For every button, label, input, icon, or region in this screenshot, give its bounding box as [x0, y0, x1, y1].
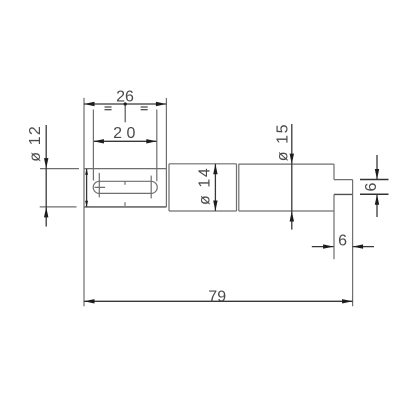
svg-text:20: 20 — [113, 125, 140, 142]
arrowhead 26 right — [156, 102, 167, 106]
arrowhead dia12 inner bottom — [85, 201, 88, 207]
arrowhead 20 right — [146, 139, 157, 143]
shaft section S1 (keyway section) outline — [84, 98, 166, 207]
keyway right center cross — [150, 176, 152, 199]
dim 6 right dimension line segments — [376, 155, 378, 217]
equals mark right under 26 — [141, 107, 148, 111]
arrowhead 79 right (points right) — [342, 299, 353, 303]
svg-text:26: 26 — [116, 89, 134, 106]
arrowhead dia12 bottom (points up) — [44, 207, 48, 218]
arrowhead dia12 top (points down) — [44, 158, 48, 169]
arrowhead dia12 inner top — [85, 169, 88, 175]
center dashes on S1 centerline — [124, 181, 126, 206]
svg-text:ø 14: ø 14 — [197, 167, 214, 205]
arrowhead 26 left — [84, 102, 95, 106]
arrowhead 6 right bottom (points up) — [375, 194, 379, 205]
groove double lines between S2 and S3 — [237, 164, 239, 211]
svg-text:ø 15: ø 15 — [275, 123, 292, 161]
arrowhead 6 bottom right (points left) — [353, 244, 364, 248]
dia12 dimension line outside segments — [45, 125, 47, 227]
arrowhead 79 left (points left) — [84, 299, 95, 303]
svg-text:6: 6 — [363, 182, 380, 191]
dim 6 bottom extension lines — [334, 194, 353, 306]
dimension 20 extension lines — [93, 110, 156, 182]
equals mark left under 26 — [105, 107, 112, 111]
svg-text:ø 12: ø 12 — [27, 125, 44, 162]
dia12 dimension extension lines (left) — [40, 169, 79, 207]
shaft section S3 (dia 15) outline — [239, 164, 334, 211]
dia15 dimension line — [291, 124, 293, 230]
arrowhead dia15 top (points down) — [290, 154, 294, 165]
arrowhead dia15 bottom (points up) — [290, 211, 294, 222]
dimension 20 line — [93, 140, 156, 142]
arrowhead 6 bottom left (points right) — [323, 244, 334, 248]
center dot of 26 dimension — [124, 102, 127, 105]
left extension / edge line of S1 down to 79 dim — [83, 98, 85, 306]
dimension 26 center stem — [124, 104, 126, 122]
arrowhead 6 right top (points down) — [375, 169, 379, 180]
dim 6 bottom dimension line segments — [312, 246, 374, 248]
dim 6 right extension lines — [360, 180, 389, 195]
keyway slot — [93, 181, 157, 193]
arrowhead 20 left — [93, 139, 104, 143]
keyway left center cross — [95, 173, 106, 198]
dia14 dimension line — [214, 164, 216, 211]
arrowhead dia14 bottom (points down) — [213, 201, 217, 212]
dia12 inner dimension line at S1 left edge — [86, 169, 88, 207]
shaft section S2 (dia 14) outline — [169, 164, 237, 211]
dimension 26 line — [84, 103, 166, 105]
svg-text:6: 6 — [338, 233, 347, 250]
dimension 79 line — [84, 300, 353, 302]
right end cylinder outline — [334, 180, 353, 211]
svg-text:79: 79 — [208, 289, 226, 306]
arrowhead dia14 top (points up) — [213, 164, 217, 175]
